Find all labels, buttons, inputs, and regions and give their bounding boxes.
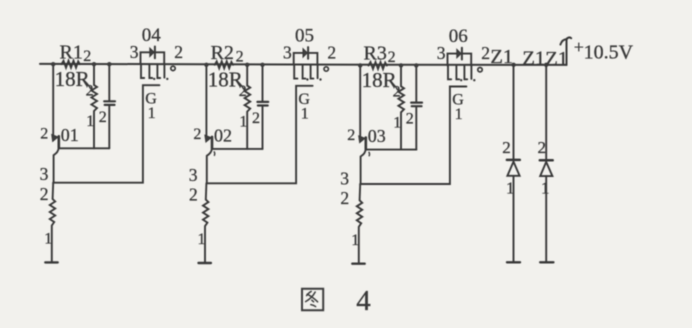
svg-text:2: 2 — [40, 184, 49, 204]
svg-text:10.5V: 10.5V — [584, 41, 634, 63]
svg-text:R1: R1 — [60, 41, 83, 63]
svg-text:Z1: Z1 — [522, 48, 545, 70]
svg-text:2: 2 — [236, 48, 244, 65]
svg-text:03: 03 — [368, 126, 386, 146]
svg-text:Z1: Z1 — [545, 48, 568, 70]
svg-text:3: 3 — [40, 164, 49, 184]
svg-text:3: 3 — [189, 165, 198, 185]
svg-text:2: 2 — [502, 138, 511, 157]
svg-text:3: 3 — [340, 169, 349, 189]
svg-text:R3: R3 — [364, 42, 387, 64]
svg-text:+: + — [574, 37, 584, 57]
svg-text:02: 02 — [214, 126, 232, 146]
svg-text:Z1: Z1 — [490, 46, 513, 68]
svg-text:4: 4 — [356, 285, 371, 317]
svg-text:2: 2 — [538, 138, 547, 157]
svg-text:06: 06 — [449, 26, 468, 47]
svg-text:01: 01 — [61, 125, 79, 145]
svg-text:2: 2 — [340, 188, 349, 208]
svg-text:R2: R2 — [211, 42, 234, 64]
svg-text:2: 2 — [189, 185, 198, 205]
svg-text:05: 05 — [295, 26, 314, 47]
svg-text:2: 2 — [388, 49, 396, 66]
svg-text:1: 1 — [541, 178, 550, 197]
svg-text:2: 2 — [83, 48, 91, 65]
svg-text:1: 1 — [506, 178, 515, 197]
svg-text:04: 04 — [142, 25, 162, 46]
